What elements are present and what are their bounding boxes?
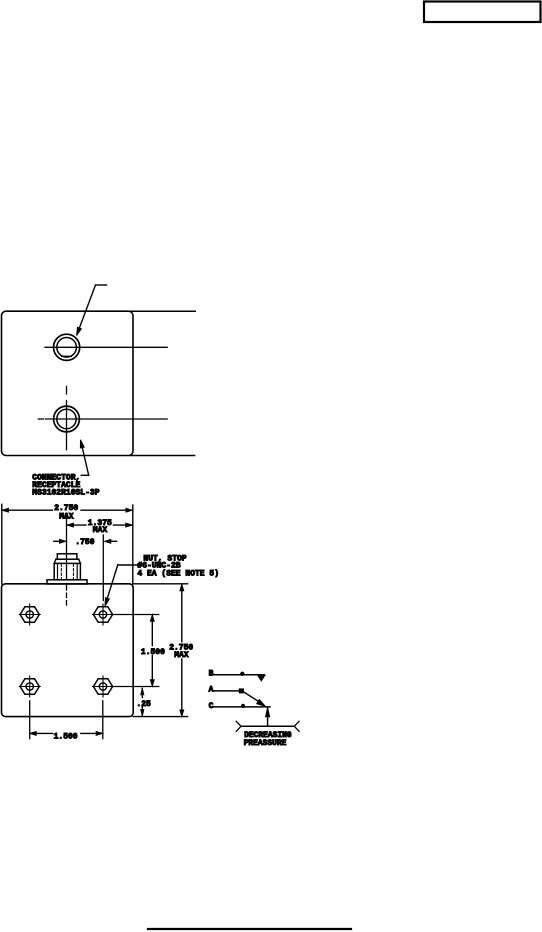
dimension 1.375 MAX: [67, 519, 132, 535]
terminal A label: [209, 685, 214, 694]
contact dot B: [241, 672, 244, 675]
wire terminal C: [214, 706, 271, 708]
contact stop triangle B: [258, 675, 265, 681]
label connector receptacle: [32, 474, 99, 498]
connector hole bottom inner circle: [57, 409, 76, 428]
top view body top edge line: [130, 310, 195, 312]
svg-text:.750: .750: [75, 538, 94, 547]
connector hole bottom outer circle: [54, 406, 80, 432]
extension line nut bottom-right to 1.500: [114, 686, 159, 688]
dimension 2.750 MAX width: [2, 504, 132, 521]
connector hole top inner circle: [57, 338, 77, 358]
extension line right body width: [132, 505, 134, 584]
actuation arrow up: [266, 707, 270, 726]
leader to top connector hole: [77, 285, 107, 336]
body bottom edge extension: [133, 716, 187, 718]
top view flange plate: [2, 311, 134, 455]
connector shoulder: [54, 559, 80, 563]
terminal C label: [209, 702, 214, 711]
contact dot C: [241, 704, 244, 707]
connector key flat: [62, 355, 72, 357]
top view body bottom edge line: [130, 455, 195, 457]
top hole horizontal centerline: [45, 346, 167, 348]
stop nut bottom-right: [93, 676, 114, 697]
stop nut top-left: [19, 604, 40, 625]
wire terminal A: [214, 690, 241, 692]
dimension .750: [54, 538, 117, 547]
axis break marks: [236, 721, 299, 731]
front view body: [2, 584, 134, 717]
stop nut bottom-left: [19, 676, 40, 697]
extension line nut top-right to 1.500: [114, 614, 159, 616]
connector cap rect: [57, 554, 77, 559]
svg-text:MS3102R10SL-3P: MS3102R10SL-3P: [32, 489, 99, 498]
leader to stop nut: [105, 565, 143, 606]
connector hex shell: [54, 563, 80, 579]
bottom hole vertical centerline: [66, 386, 68, 449]
extension line bottom-right nut: [102, 701, 104, 739]
bottom hole horizontal centerline: [38, 418, 167, 420]
body top edge extension: [133, 583, 187, 585]
title block box: [424, 2, 541, 23]
svg-text:PREASSURE: PREASSURE: [244, 739, 287, 748]
svg-text:A: A: [209, 685, 214, 694]
decreasing pressure axis line: [241, 725, 294, 727]
dimension 2.750 MAX vertical: [169, 584, 193, 716]
label nut stop: [137, 554, 219, 578]
svg-text:.25: .25: [136, 700, 151, 709]
terminal B label: [209, 669, 214, 678]
svg-text:B: B: [209, 669, 214, 678]
svg-text:MAX: MAX: [93, 526, 108, 535]
centerline dashes into body: [66, 586, 68, 609]
svg-text:4 EA (SEE NOTE 5): 4 EA (SEE NOTE 5): [137, 569, 219, 578]
extension line connector centerline: [66, 516, 68, 580]
leader to bottom connector hole: [80, 440, 88, 476]
extension line .750 right: [102, 535, 104, 601]
svg-text:MAX: MAX: [174, 651, 189, 660]
svg-text:1.500: 1.500: [54, 733, 78, 742]
switch arm: [243, 692, 265, 707]
dimension 1.500 horizontal: [30, 732, 102, 742]
label decreasing pressure: [244, 731, 292, 748]
connector hole top outer circle: [54, 334, 80, 360]
dimension .25: [136, 688, 151, 716]
extension line left 2.750: [1, 504, 3, 584]
wire terminal B: [214, 674, 265, 676]
stop nut top-right: [93, 604, 114, 625]
bottom rule line: [148, 928, 351, 930]
dimension 1.500 vertical: [141, 615, 165, 686]
extension line bottom-left nut: [29, 701, 31, 739]
svg-text:1.500: 1.500: [141, 648, 165, 657]
connector base flange: [47, 580, 87, 584]
pivot block A: [239, 689, 243, 693]
